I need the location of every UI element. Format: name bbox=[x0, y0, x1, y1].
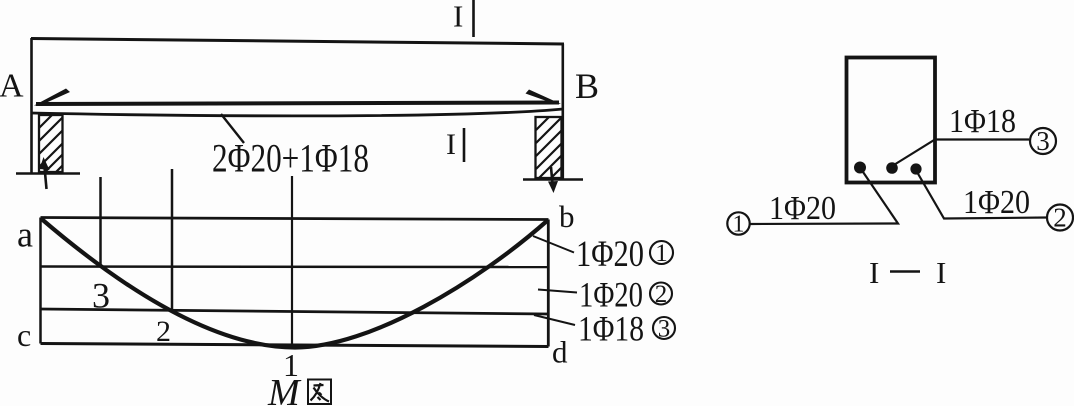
svg-text:1Φ18: 1Φ18 bbox=[949, 103, 1016, 140]
caption CJK tu box bbox=[308, 380, 331, 405]
svg-text:1Φ18: 1Φ18 bbox=[578, 309, 644, 349]
leader label 2 bbox=[538, 290, 577, 293]
leader label 1 bbox=[533, 236, 574, 253]
svg-text:1Φ20: 1Φ20 bbox=[576, 234, 644, 275]
svg-text:I: I bbox=[446, 128, 456, 161]
support B break arrow bbox=[551, 167, 553, 184]
svg-text:1Φ20: 1Φ20 bbox=[963, 184, 1030, 221]
svg-text:1: 1 bbox=[733, 212, 745, 238]
svg-text:1Φ20: 1Φ20 bbox=[769, 190, 836, 227]
svg-text:d: d bbox=[552, 335, 568, 370]
support B ground line bbox=[523, 178, 583, 181]
beam top edge bbox=[31, 39, 564, 45]
cut line at point 2 bbox=[171, 169, 174, 312]
circled 3 section bbox=[1030, 128, 1056, 154]
rebar line with hooks bbox=[36, 103, 559, 105]
rebar dot 2 bbox=[910, 163, 921, 174]
support A hatching bbox=[39, 115, 63, 172]
svg-text:3: 3 bbox=[92, 276, 110, 316]
leader label 3 bbox=[534, 315, 575, 325]
svg-text:B: B bbox=[575, 66, 599, 106]
rebar left arrowhead bbox=[34, 89, 70, 106]
svg-text:3: 3 bbox=[1036, 126, 1050, 156]
svg-text:2: 2 bbox=[655, 281, 668, 308]
svg-text:A: A bbox=[0, 68, 24, 105]
caption CJK tu inner strokes bbox=[311, 383, 330, 402]
support A box bbox=[39, 115, 63, 172]
section mark mid bar bbox=[463, 128, 466, 162]
moment level line 1 bbox=[41, 265, 549, 268]
circled 2 moment bbox=[650, 283, 672, 305]
rebar right arrowhead bbox=[526, 90, 562, 105]
leader to rebar label bbox=[221, 114, 244, 143]
rebar dot 3 bbox=[886, 162, 898, 174]
leader dot3 to circled 3 bbox=[893, 140, 1029, 166]
svg-text:I: I bbox=[453, 0, 463, 34]
svg-text:M: M bbox=[267, 372, 302, 406]
svg-text:3: 3 bbox=[658, 316, 671, 343]
circled 1 moment bbox=[650, 241, 673, 264]
beam left edge bbox=[30, 38, 33, 174]
svg-text:a: a bbox=[17, 215, 33, 255]
svg-text:1: 1 bbox=[655, 240, 668, 267]
svg-text:I: I bbox=[869, 255, 879, 290]
section mark top bar bbox=[472, 0, 475, 37]
moment rect bottom edge bbox=[41, 344, 549, 347]
moment rect top edge bbox=[41, 218, 549, 220]
svg-text:I: I bbox=[936, 255, 946, 290]
section rect bbox=[847, 58, 936, 183]
beam right edge bbox=[561, 44, 564, 179]
support B hatching bbox=[536, 117, 562, 178]
beam bottom edge bbox=[31, 109, 563, 116]
support B box bbox=[536, 117, 562, 178]
support A break arrow bbox=[45, 167, 47, 189]
moment rect left edge bbox=[39, 218, 42, 344]
circled 1 section bbox=[727, 212, 749, 234]
cut line at point 3 bbox=[99, 177, 102, 267]
svg-text:2: 2 bbox=[1053, 203, 1067, 233]
moment parabola bbox=[41, 219, 548, 348]
circled 2 section bbox=[1047, 205, 1073, 231]
svg-text:c: c bbox=[17, 317, 31, 353]
svg-text:b: b bbox=[559, 199, 575, 234]
leader dot2 to circled 2 bbox=[917, 172, 1047, 219]
I-I caption dash bbox=[890, 270, 920, 273]
rebar dot 1 bbox=[854, 162, 866, 174]
centre line at point 1 bbox=[291, 176, 293, 345]
leader dot1 to circled 1 bbox=[750, 171, 898, 225]
support A ground line bbox=[16, 172, 80, 175]
moment level line 2 bbox=[41, 309, 549, 314]
moment rect right edge bbox=[547, 220, 550, 347]
svg-text:2Φ20+1Φ18: 2Φ20+1Φ18 bbox=[212, 136, 369, 181]
circled 3 moment bbox=[653, 317, 675, 339]
svg-text:2: 2 bbox=[156, 315, 171, 348]
